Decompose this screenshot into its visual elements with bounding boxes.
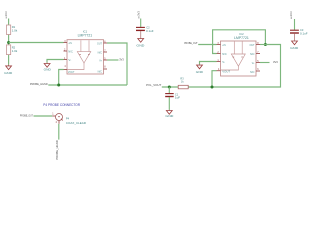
IC1 pin 7 (N/C) xyxy=(98,50,107,55)
svg-text:N/C: N/C xyxy=(98,51,103,55)
svg-text:V-: V- xyxy=(68,58,71,62)
svg-text:+IN: +IN xyxy=(222,43,226,47)
svg-text:P4 PROBE CONNECTOR: P4 PROBE CONNECTOR xyxy=(43,103,80,107)
svg-text:PROBE_OUT: PROBE_OUT xyxy=(20,114,33,118)
svg-text:0.1uF: 0.1uF xyxy=(300,32,308,36)
op-amp IC2 triangle xyxy=(221,42,246,71)
svg-text:OUT: OUT xyxy=(97,41,102,45)
svg-text:P4: P4 xyxy=(66,117,70,121)
node junction IC2 out xyxy=(264,43,267,46)
op-amp IC1 triangle xyxy=(67,40,91,69)
svg-text:+IN: +IN xyxy=(68,41,72,45)
wire IC2 out pin to junction xyxy=(260,44,265,46)
svg-text:GND: GND xyxy=(136,43,145,47)
node junction C1/rail xyxy=(168,86,171,89)
wire divider to IC1 +IN xyxy=(9,42,64,44)
resistor R1 xyxy=(7,25,18,35)
svg-text:GND: GND xyxy=(4,71,13,75)
wire IC2 feedback loop xyxy=(213,30,266,54)
capacitor C1 xyxy=(165,92,180,99)
svg-text:VOUT: VOUT xyxy=(68,70,75,74)
svg-text:GND: GND xyxy=(196,70,204,74)
svg-text:V-: V- xyxy=(222,60,225,64)
ground GND3 xyxy=(196,64,204,74)
svg-text:N/C: N/C xyxy=(250,70,255,74)
wire xyxy=(140,19,142,28)
svg-text:PXL_VOUT: PXL_VOUT xyxy=(146,83,161,87)
wire IC1 feedback (pin4 to bottom rail) xyxy=(59,70,64,86)
IC1 pin 5 (V+) xyxy=(99,58,107,63)
IC1 pin 6 (OUT) xyxy=(97,41,107,46)
wire xyxy=(294,34,296,41)
wire PROBE_OUT to IC2 xyxy=(198,44,216,46)
IC1 pin 2 (N/C) xyxy=(64,49,73,54)
svg-text:LMP7721: LMP7721 xyxy=(78,34,93,38)
wire IC2 out down to rail xyxy=(162,45,281,88)
wire bottom rail left xyxy=(48,84,127,86)
IC2 pin 4 (VOUT) xyxy=(217,68,231,74)
wire xyxy=(140,31,142,38)
ground GND1 xyxy=(4,65,13,75)
svg-text:GND: GND xyxy=(290,46,299,50)
svg-text:PROBE_HGND: PROBE_HGND xyxy=(30,82,48,86)
svg-text:6: 6 xyxy=(257,68,259,71)
svg-text:COAX_CLEAR: COAX_CLEAR xyxy=(66,121,86,125)
resistor R2 xyxy=(7,45,18,55)
IC1 pin 8 (N/C) xyxy=(98,66,107,74)
svg-text:3V3: 3V3 xyxy=(273,60,278,64)
svg-text:2: 2 xyxy=(56,121,58,124)
svg-text:LMP7721: LMP7721 xyxy=(234,36,249,40)
wire P4 shield down xyxy=(58,124,60,140)
ground GND6 xyxy=(290,40,299,50)
ground GND4 xyxy=(136,38,145,48)
resistor R3 (in output rail) xyxy=(178,76,188,88)
IC1 name labels xyxy=(78,29,93,37)
svg-text:3V3: 3V3 xyxy=(4,11,8,17)
svg-text:GND: GND xyxy=(165,114,174,118)
wire xyxy=(168,97,170,110)
svg-text:V+: V+ xyxy=(99,59,102,63)
svg-text:PROBE_OUT: PROBE_OUT xyxy=(184,41,198,45)
IC2 pin 3 (+IN) xyxy=(217,42,226,47)
supply +3V3 (left) xyxy=(4,11,8,19)
wire xyxy=(8,19,10,65)
IC2 pin 2 (N/C) xyxy=(217,51,227,56)
ground GND2 wire xyxy=(47,60,64,63)
ground GND3 wire xyxy=(200,62,217,65)
svg-text:3V3: 3V3 xyxy=(289,11,293,17)
svg-text:4: 4 xyxy=(64,65,66,68)
svg-text:1uF: 1uF xyxy=(175,96,180,100)
svg-text:GND: GND xyxy=(44,67,52,71)
node junction VOUT/rail xyxy=(211,86,214,89)
supply +3V3 (C3) xyxy=(289,11,293,19)
svg-text:1.0k: 1.0k xyxy=(12,49,18,53)
ground GND2 xyxy=(44,63,52,72)
node junction PROBE_HGND xyxy=(57,84,60,87)
wire C1 drop xyxy=(168,87,170,93)
op-amp IC2 LMP7721 box xyxy=(221,41,257,76)
IC2 pin 6 (N/C) xyxy=(250,68,260,74)
wire IC2 3v3 stub xyxy=(260,62,270,64)
wire IC1 output xyxy=(107,43,127,85)
op-amp IC1 LMP7721 box xyxy=(67,40,104,74)
svg-text:VOUT: VOUT xyxy=(222,70,230,74)
IC2 name labels xyxy=(234,32,249,40)
IC2 pin 5 (V+) xyxy=(252,60,260,65)
capacitor C3 xyxy=(290,28,308,36)
wire PROBE_OUT to P4 xyxy=(34,115,53,117)
connector P4 coax xyxy=(52,113,86,126)
capacitor C2 xyxy=(136,25,154,33)
IC2 pin 7 (N/C) xyxy=(250,51,260,56)
supply +3V3 (C2) xyxy=(137,10,141,18)
node junction R1/R2 xyxy=(7,41,10,44)
svg-text:1k: 1k xyxy=(181,80,184,84)
wire IC2 VOUT drop xyxy=(212,71,217,87)
svg-text:N/C: N/C xyxy=(250,52,255,56)
IC1 pin 1 (V-) xyxy=(64,57,72,62)
wire IC1 3V3 stub xyxy=(107,59,119,61)
svg-text:3V3: 3V3 xyxy=(119,57,124,61)
svg-text:N/C: N/C xyxy=(222,52,227,56)
svg-text:PROBE_HGND: PROBE_HGND xyxy=(55,140,59,159)
svg-text:N/C: N/C xyxy=(68,50,73,54)
IC2 pin 8 (OUT) xyxy=(250,42,261,47)
svg-text:N/C: N/C xyxy=(98,70,103,74)
svg-text:OUT: OUT xyxy=(250,43,255,47)
IC2 pin 1 (V-) xyxy=(217,59,226,64)
svg-text:1.0k: 1.0k xyxy=(12,29,18,33)
ground GND5 xyxy=(165,110,174,118)
svg-text:3V3: 3V3 xyxy=(137,10,141,16)
svg-text:0.1uF: 0.1uF xyxy=(146,29,154,33)
IC1 pin 4 (VOUT) xyxy=(64,65,75,74)
svg-text:8: 8 xyxy=(104,66,106,69)
svg-text:V+: V+ xyxy=(252,61,255,65)
svg-text:1: 1 xyxy=(52,113,54,116)
IC1 pin 3 (+IN) xyxy=(64,40,72,45)
wire xyxy=(294,19,296,30)
